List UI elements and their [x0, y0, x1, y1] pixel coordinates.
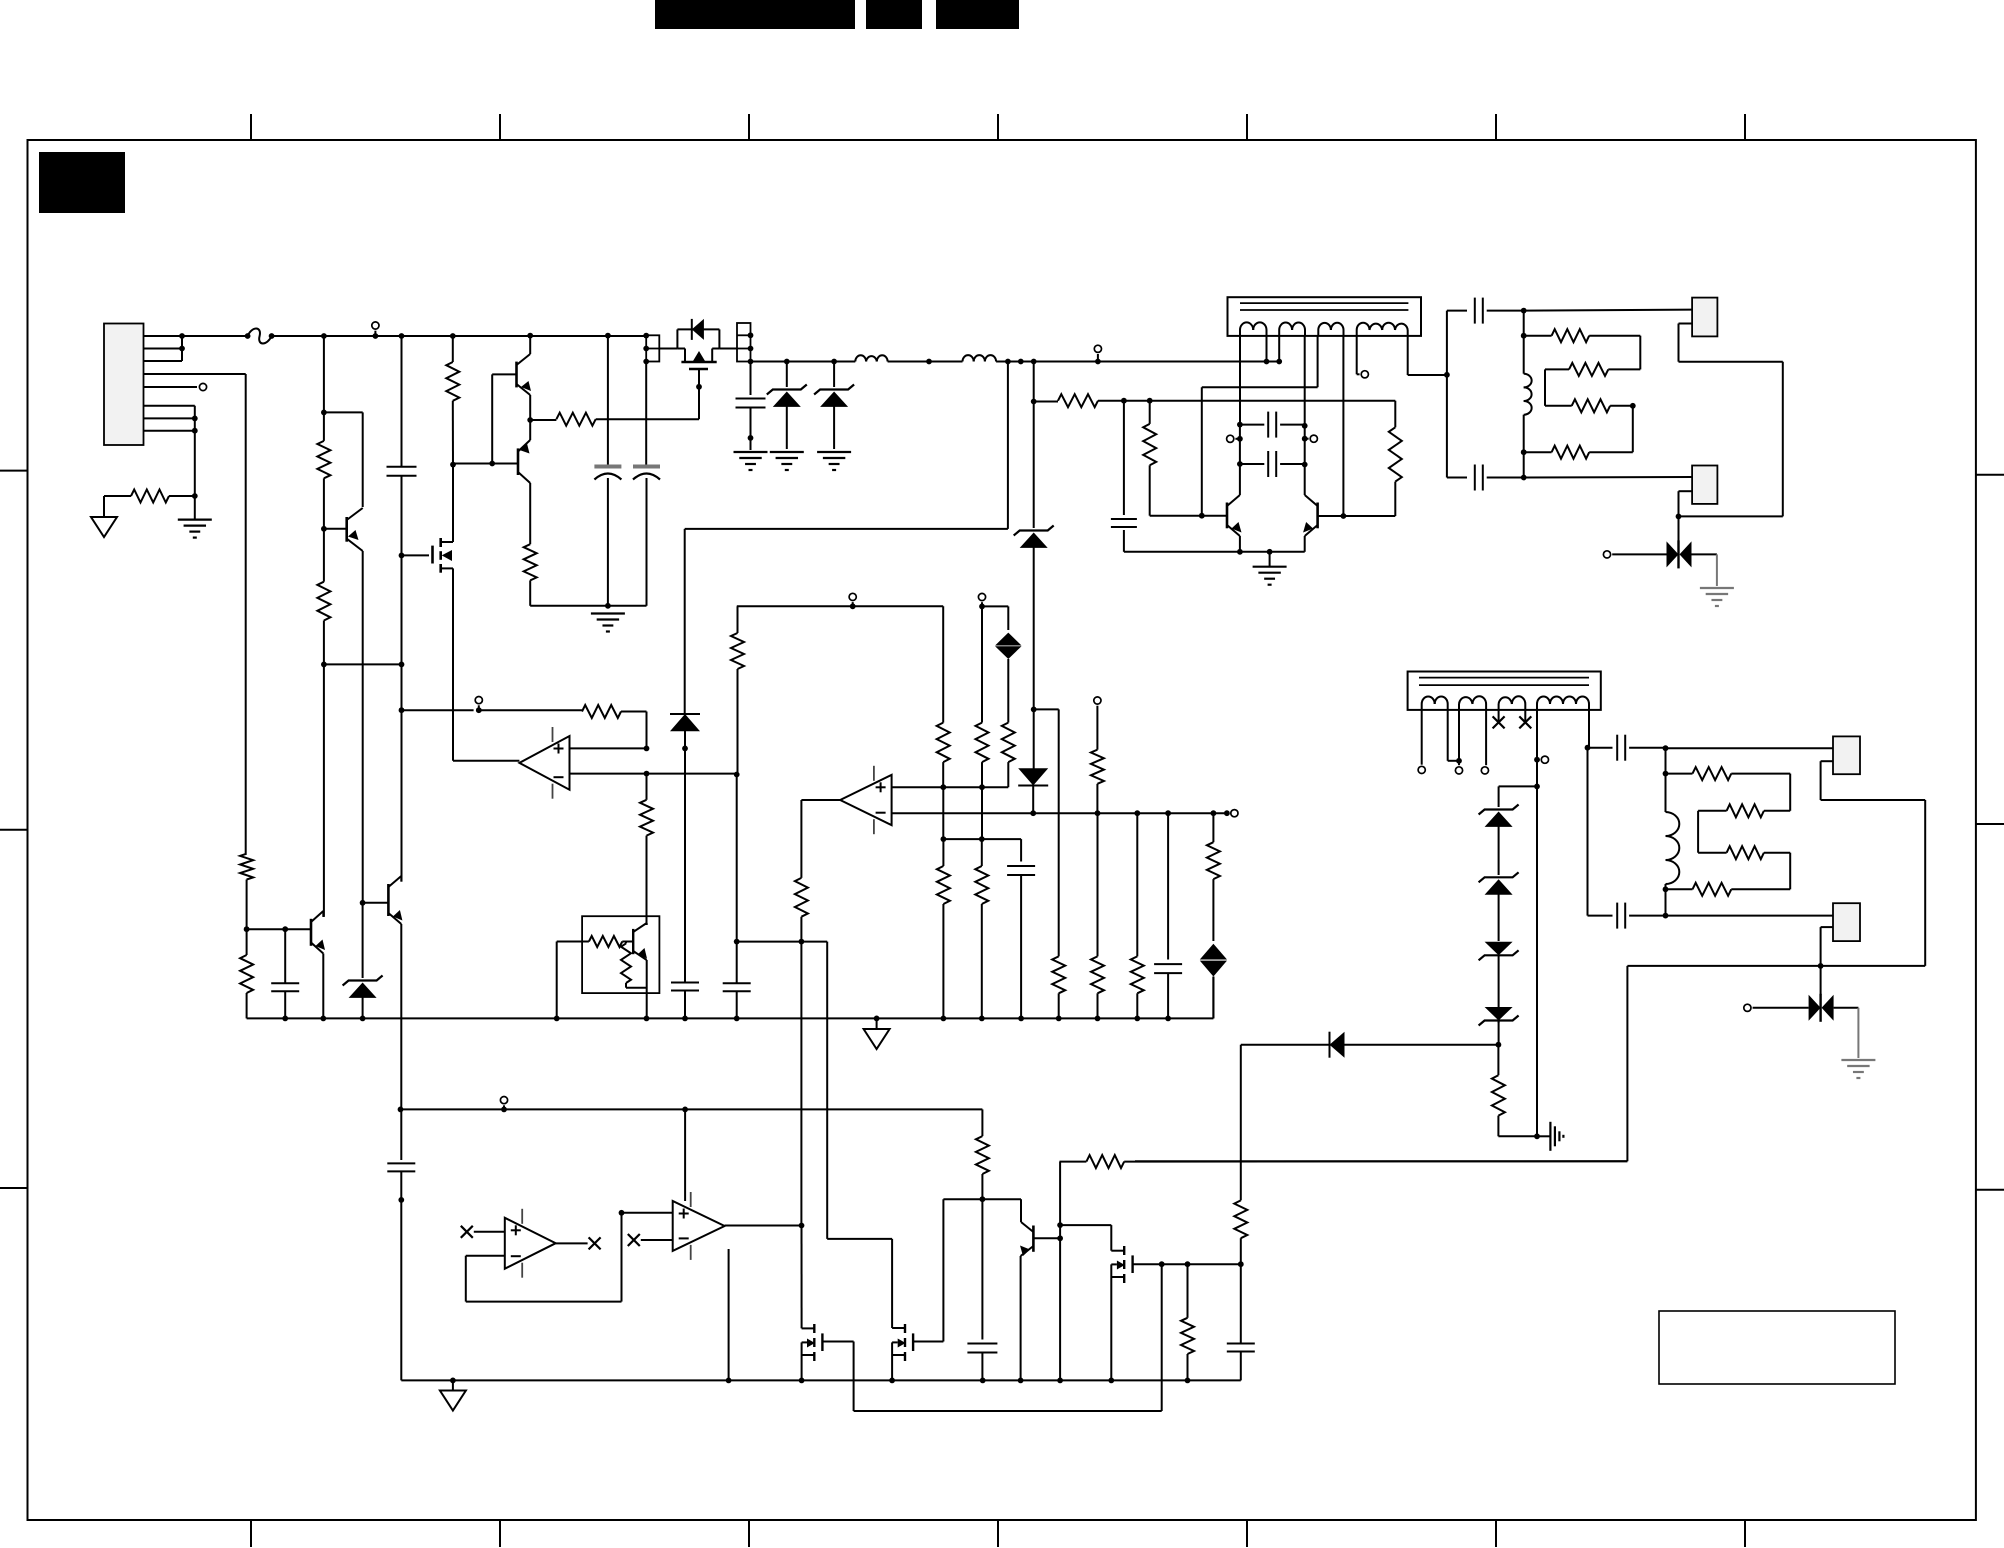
zener Z6 — [1479, 938, 1519, 1023]
wire rail to xfmr — [996, 361, 1279, 363]
node rail x401 dot — [399, 333, 405, 339]
wire base Q1 — [324, 528, 347, 530]
node gnd-wire dot — [605, 603, 611, 609]
node rail x530 dot — [527, 333, 533, 339]
wire Q4 emitter — [400, 924, 402, 1109]
node y515 x1201 dot — [1199, 513, 1205, 519]
node rail 1266 dot — [1264, 359, 1270, 365]
wire U2 +in — [892, 786, 1009, 788]
wire U4 -in — [466, 1213, 622, 1302]
wire Q2a emitter — [529, 395, 531, 420]
node x736 y941 dot — [734, 939, 740, 945]
node y400 x1123 dot — [1121, 398, 1127, 404]
transistor Q1 (PNP) — [347, 508, 363, 551]
node Q5c y464 dot — [1237, 461, 1243, 467]
wire J1 pin8 — [144, 430, 195, 432]
node x982 y606 dot — [979, 604, 985, 610]
wire Q6 collector — [1304, 336, 1306, 495]
zener Z4 — [1479, 805, 1519, 876]
wire x982 cap chain — [981, 1199, 983, 1339]
wire C1-gate node — [401, 476, 403, 556]
resistor R18 — [479, 705, 647, 748]
wire M5 drain up — [1110, 1225, 1112, 1251]
wire M4 gate — [913, 1199, 943, 1341]
wire T2 w2R — [1485, 710, 1487, 765]
zener Z3 — [1014, 402, 1054, 710]
wire y463 base chain — [453, 463, 518, 465]
wire x401 to Q4 collector — [401, 710, 403, 881]
wire NPN Q2a base — [492, 373, 516, 375]
wire rail mid — [888, 361, 963, 363]
node ladder2 r4 dot — [1663, 886, 1669, 892]
node x982 y1199 dot — [980, 1196, 986, 1202]
wire T1 w4L pin — [1357, 336, 1360, 374]
node M3 src dot — [799, 1378, 805, 1384]
link box L2 — [737, 323, 751, 362]
node rail 1033 dot — [1031, 359, 1037, 365]
wire lad2 bot link — [1665, 889, 1667, 915]
resistor R36 wire — [1060, 1161, 1087, 1163]
wire T1 w2 pins — [1267, 336, 1280, 362]
terminal rail tap — [372, 322, 379, 336]
node rail z2 dot — [831, 359, 837, 365]
node out1 C9 dot — [1521, 308, 1527, 314]
wire Q1 emitter down — [362, 551, 364, 903]
wire x982 tap — [982, 602, 1008, 630]
wire gnd wire y606 — [529, 605, 531, 607]
wire ladder2 top — [1665, 748, 1667, 773]
node x1060 y1225 dot — [1057, 1222, 1063, 1228]
terminal T2 w2L — [1455, 767, 1462, 774]
chassis gnd bottom — [440, 1380, 466, 1410]
wire x492 up — [491, 374, 493, 463]
wire x1007 down — [685, 362, 1008, 714]
resistor R22 — [976, 723, 989, 788]
terminal rail tap3 — [500, 1097, 507, 1110]
terminal T2 w1L — [1418, 766, 1425, 773]
node U3 out dot — [799, 1223, 805, 1229]
node Q6c y425 dot — [1302, 423, 1308, 429]
wire M3 source — [801, 1355, 803, 1380]
resistor R26 — [1091, 956, 1104, 1018]
node +in x982 dot — [979, 784, 985, 790]
resistor R8 — [1318, 401, 1402, 516]
wire Q3 collector — [322, 911, 324, 917]
wire y712 — [402, 709, 474, 711]
wire x1097 lower — [1097, 813, 1099, 956]
diode D3 — [1033, 709, 1035, 772]
MOSFET M2s channel — [439, 538, 442, 573]
TVS DV2 (diamond) — [1200, 944, 1227, 1019]
wire x323 to Q3 — [323, 664, 325, 917]
node rail x452 dot — [450, 333, 456, 339]
capacitor C7 — [1240, 412, 1305, 438]
resistor R3 gate drive — [530, 413, 699, 426]
resistor R21 — [937, 723, 950, 788]
MOSFET M1 channel — [681, 361, 716, 364]
wire out2 to J5 — [1666, 915, 1834, 917]
wire x942 down — [942, 606, 944, 722]
terminal -in — [1231, 810, 1238, 817]
wire T2 w1R — [1448, 710, 1459, 761]
terminal pin5 — [199, 383, 206, 390]
node pin8 dot — [192, 428, 198, 434]
node U1 -in x736 dot — [734, 772, 740, 778]
node x1537 y1136 dot — [1534, 1133, 1540, 1139]
wire x323-x362 jog — [324, 412, 363, 507]
capacitor C12 — [1617, 903, 1665, 929]
node +in x943 dot — [940, 784, 946, 790]
wire Q7 base — [1033, 1237, 1060, 1239]
redaction bar 1 (title) — [655, 0, 855, 29]
node rail 1279 dot — [1276, 359, 1282, 365]
wire lad1 bot link — [1523, 452, 1525, 477]
wire to chassis gnd — [103, 496, 105, 517]
MOSFET M4 — [892, 1324, 913, 1361]
resistor R25 — [1091, 750, 1104, 814]
wire x1213 lower — [1212, 813, 1214, 842]
earth ground Z1 — [770, 452, 804, 470]
wire M3 drain — [802, 1226, 815, 1329]
wire T1 pin w1L — [1239, 336, 1241, 425]
wire R4 to gnd wire — [530, 580, 646, 605]
terminal y606 tap — [849, 593, 856, 606]
resistor R37 — [1181, 1264, 1194, 1380]
resistor R14 — [1666, 767, 1791, 780]
opamp U4 (bottom left) — [505, 1209, 556, 1278]
wire U1 out — [453, 760, 519, 762]
earth ground D4 — [1700, 588, 1734, 606]
title block box — [1659, 1311, 1895, 1384]
connector J5 — [1833, 903, 1860, 941]
wire T2 w1L — [1421, 710, 1423, 765]
resistor R5 — [1052, 956, 1065, 993]
node rail tap3 dot — [501, 1107, 507, 1113]
diode D2 — [670, 714, 700, 748]
node rail 1007 dot — [1005, 359, 1011, 365]
node M1 gate dot — [696, 384, 702, 390]
node x401 y710 dot — [399, 707, 405, 713]
wire x1060 — [1059, 1162, 1061, 1381]
X mark U4 +in — [461, 1226, 473, 1238]
link box L1 — [646, 335, 659, 361]
earth ground D6 — [1841, 1060, 1875, 1078]
resistor R31 (opto) — [589, 936, 633, 947]
wire J1 pin5 — [144, 386, 198, 388]
node rail x607 dot — [605, 333, 611, 339]
X mark U3 -in — [628, 1234, 640, 1246]
resistor R28 — [1207, 842, 1220, 941]
transistor Q4 — [388, 876, 402, 924]
resistor R15 — [1698, 804, 1790, 817]
node M5 src dot — [1108, 1378, 1114, 1384]
connector J2 — [1692, 298, 1717, 337]
terminal x982 tap — [978, 593, 985, 600]
wire Q3 emitter — [322, 954, 324, 1019]
wire J4 pin2 — [1821, 761, 1926, 966]
earth ground C4 — [734, 452, 768, 470]
node Q5c y424 dot — [1237, 422, 1243, 428]
wire R5 to bus — [1058, 993, 1060, 1018]
node gate M2s dot — [399, 553, 405, 559]
redaction bar 3 — [936, 0, 1019, 29]
wire w4L long down — [1536, 786, 1538, 1136]
resistor R17 — [1666, 883, 1791, 896]
terminal D4 — [1603, 551, 1610, 558]
capacitor C19 — [1227, 1264, 1255, 1380]
wire U2 out — [801, 800, 840, 878]
wire opto input — [557, 941, 589, 943]
wire out2 to J4 — [1666, 747, 1834, 749]
node bus-a dot — [1237, 549, 1243, 555]
wire bottom bus — [401, 1379, 1241, 1381]
wire Q5 collector — [1239, 425, 1241, 495]
diode D3 symbol — [1018, 768, 1048, 813]
wire x736 chain — [737, 606, 739, 633]
node zstack bot dot — [1496, 1042, 1502, 1048]
transistor Q3 — [311, 911, 325, 954]
terminal y712 tap — [475, 697, 482, 711]
wire U3 out — [725, 1225, 802, 1227]
node R-bleed dot — [192, 493, 198, 499]
wire U3 -in — [641, 1239, 673, 1241]
wire U3 gnd stub — [728, 1249, 730, 1380]
node rail left dot — [398, 1107, 404, 1113]
node x401 y1199 dot — [398, 1197, 404, 1203]
node x323 y664 dot — [321, 662, 327, 668]
wire out1 bottom — [1447, 375, 1467, 478]
wire U3 +in — [622, 1212, 673, 1214]
wire J2 pin2 — [1679, 324, 1783, 517]
wire Q2b collector down — [529, 483, 531, 544]
wire C4 gnd — [750, 438, 752, 450]
node lad1 mid dot — [1630, 403, 1636, 409]
MOSFET M2s gate bar — [431, 546, 434, 564]
MOSFET M1 stubs — [685, 355, 712, 362]
wire C6 down — [1124, 530, 1241, 552]
node M4 src dot — [889, 1378, 895, 1384]
node x1060 bus dot — [1057, 1378, 1063, 1384]
opamp U1 (comparator left) — [519, 727, 569, 799]
node out2 left dot — [1585, 745, 1591, 751]
node x453 y464 dot — [450, 462, 456, 468]
wire M3 gate — [822, 1264, 1161, 1411]
node rail x323 dot — [321, 333, 327, 339]
wire U1 +in — [570, 747, 647, 749]
node out1 C10 dot — [1521, 475, 1527, 481]
wire out2 bus left — [1135, 966, 1821, 1161]
resistor R-bleed — [104, 490, 195, 503]
wire x982 y839 — [981, 787, 983, 839]
node rail tap dot — [373, 333, 379, 339]
wire y929 — [247, 928, 311, 930]
MOSFET M5 — [1111, 1246, 1132, 1283]
node D2 anode dot — [682, 746, 688, 752]
wire w3R pin — [1342, 336, 1344, 516]
capacitor C14 — [1154, 964, 1182, 1018]
wire x401 bottom — [400, 1109, 402, 1160]
wire out1 to J2 — [1524, 310, 1692, 311]
resistor R13 — [1492, 1045, 1537, 1137]
earth ground mid — [591, 614, 625, 632]
wire x401 mid — [401, 555, 403, 710]
wire opto input drop — [556, 942, 558, 1019]
wire x1201 up — [1202, 336, 1318, 516]
capacitor C9 — [1475, 298, 1524, 324]
node rail x929 dot — [926, 359, 932, 365]
wire rail fuse-MOSFET — [272, 335, 647, 337]
wire rail pin1-fuse — [182, 335, 248, 337]
capacitor C13 — [723, 942, 751, 1019]
TVS DV1 (diamond) — [995, 633, 1021, 723]
node x1060 y1238 dot — [1057, 1235, 1063, 1241]
transistor Q2a (NPN top) — [517, 354, 532, 395]
wire x323 upper — [323, 336, 325, 441]
wire jog x1058 — [1034, 709, 1059, 956]
wire gate M2s — [402, 554, 430, 556]
resistor R12 — [1524, 446, 1633, 459]
MOSFET M2s source stub — [441, 568, 453, 760]
node w4L y786 dot — [1534, 784, 1540, 790]
resistor R23 — [1002, 723, 1015, 788]
black logo box — [39, 152, 125, 213]
wire M5 gate — [1133, 1263, 1241, 1265]
wire lad2 r1-r2 — [1789, 774, 1791, 811]
wire x1137 lower — [1136, 813, 1138, 956]
node x285 y929 dot — [282, 926, 288, 932]
redaction bar 2 — [866, 0, 922, 29]
node x646 y748 dot — [644, 746, 650, 752]
resistor R27 — [1131, 956, 1144, 1018]
transformer T2 — [1408, 672, 1601, 710]
wire Q4 collector — [400, 876, 402, 882]
node out2 diode dot — [1818, 963, 1824, 969]
node x1033 y401 dot — [1031, 399, 1037, 405]
resistor R11 — [1545, 399, 1633, 412]
wire lad1 mid down — [1632, 406, 1634, 452]
node out1 left dot — [1444, 372, 1450, 378]
node y712 tap dot — [476, 707, 482, 713]
wire T2 w4R — [1588, 710, 1590, 748]
wire C4 down — [750, 408, 752, 438]
resistor R1 (x323 upper) — [317, 441, 330, 478]
terminal D6 — [1744, 1004, 1751, 1011]
wire x1240 chain — [1240, 1045, 1242, 1201]
wire y902 — [363, 902, 389, 904]
wire x1123 down — [1123, 401, 1125, 515]
MOSFET M1 source conn — [677, 349, 685, 356]
node U3 gnd dot — [726, 1378, 732, 1384]
diode pair D6 — [1753, 994, 1859, 1022]
capacitor C2 (bulk 1) — [594, 336, 621, 606]
wire x736 lower — [736, 775, 738, 942]
chassis gnd mid — [864, 1018, 890, 1049]
capacitor C18 — [967, 1344, 997, 1381]
capacitor C4 — [736, 399, 766, 408]
wire x685 down — [684, 748, 686, 982]
link L2 dots — [748, 332, 754, 364]
wire J1 pin3 — [144, 336, 183, 361]
resistor R2 (x323 lower) — [317, 529, 330, 665]
node rail tap2 dot — [1095, 359, 1101, 365]
wire U1 -in — [570, 773, 737, 775]
terminal Q5 tap — [1227, 435, 1240, 442]
wire lad1 r1-r2 — [1639, 336, 1641, 370]
node y516 x1343 dot — [1341, 513, 1347, 519]
wire ladder1 top — [1523, 311, 1525, 336]
capacitor C11 — [1588, 735, 1666, 761]
zener Z8 — [343, 903, 383, 1019]
chassis ground (open triangle) — [91, 517, 117, 537]
MOSFET M1 body arrow — [693, 351, 705, 361]
wire D6 gnd — [1857, 1008, 1859, 1058]
capacitor C8 — [1240, 451, 1305, 477]
connector J1 — [104, 324, 144, 446]
resistor R7 — [1143, 401, 1227, 516]
wire D4 gnd — [1716, 554, 1718, 586]
node y400 x1149 dot — [1147, 398, 1153, 404]
earth ground Z2 — [817, 452, 851, 470]
node x401 y664 (junction) — [399, 662, 405, 668]
wire U3 vcc — [684, 1109, 686, 1201]
resistor R10 — [1545, 363, 1640, 376]
node Q6c y464 dot — [1302, 462, 1308, 468]
inductor FL2 — [963, 355, 997, 361]
wire L2 down to C4 — [750, 362, 752, 396]
diode D-M1 body — [677, 319, 719, 340]
wire zener stack top — [1499, 786, 1537, 807]
inductor FL1 — [855, 355, 887, 361]
node w4L dot — [1534, 757, 1540, 763]
resistor R6 — [1034, 394, 1396, 407]
node pin7 dot — [192, 416, 198, 422]
wire opto emitter — [646, 960, 648, 1018]
node Q7 emit dot — [1018, 1378, 1024, 1384]
capacitor C17 — [387, 1163, 415, 1380]
wire U4 +in — [474, 1231, 505, 1233]
node U3 +in dot — [619, 1210, 625, 1216]
wire to diodes1 — [1678, 516, 1680, 541]
terminal T1 w4L — [1361, 371, 1368, 378]
transistor Q6 (right) — [1303, 495, 1318, 536]
wire y839 — [943, 839, 1021, 861]
node x246 y929 dot — [244, 926, 250, 932]
capacitor C3 (bulk 2) — [633, 362, 660, 606]
node R37 bus dot — [1185, 1378, 1191, 1384]
resistor R29 — [937, 839, 950, 1018]
terminal chain x1097 — [1094, 697, 1101, 750]
wire Q2b emitter up — [529, 420, 531, 440]
node ladder2 top dot — [1663, 771, 1669, 777]
MOSFET M2s body arrow — [442, 550, 452, 561]
node Q5c y438 dot — [1237, 436, 1243, 442]
connector J3 — [1692, 466, 1717, 504]
wire Q7 collector — [1021, 1199, 1033, 1232]
node pin1 dot — [179, 333, 185, 339]
terminal rail tap2 — [1094, 345, 1101, 361]
wire x1033 to zener — [1033, 362, 1035, 402]
wire T1 w4R pin — [1408, 336, 1447, 375]
wire J5 pin2 — [1821, 927, 1833, 966]
resistor R38 — [1234, 1200, 1247, 1264]
wire Q7 emitter — [1020, 1256, 1022, 1380]
MOSFET M1 gate — [689, 369, 708, 387]
wire T2 w2L — [1458, 710, 1460, 765]
capacitor C6 — [1111, 519, 1137, 527]
optocoupler box — [582, 916, 659, 993]
X mark U4 out — [589, 1237, 601, 1249]
node T2 w2L dot — [1456, 758, 1462, 764]
